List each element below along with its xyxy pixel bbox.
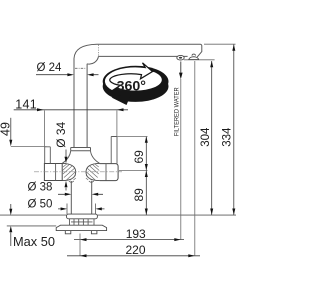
- 360 symbol: black disc: [103, 63, 169, 105]
- spout outlet underline (304 extension): [184, 59, 215, 61]
- left knob divider: [55, 164, 57, 181]
- 360 white band arrow with head at right: [104, 63, 152, 91]
- svg-text:Ø 34: Ø 34: [54, 121, 68, 147]
- faucet bend outer: [74, 44, 97, 58]
- base feet: [65, 231, 97, 234]
- svg-text:FILTERED WATER: FILTERED WATER: [174, 87, 181, 136]
- dim 193 line: [74, 239, 184, 241]
- svg-text:Max 50: Max 50: [13, 234, 55, 249]
- svg-text:69: 69: [132, 150, 146, 164]
- left ball dome (hatched): [62, 163, 75, 180]
- Max50 lower line: [7, 225, 56, 227]
- body top plate: [71, 148, 91, 151]
- 360 black arrowhead bottom-left: [112, 93, 132, 105]
- svg-text:220: 220: [126, 243, 146, 257]
- spout aerator ellipse: [177, 55, 184, 60]
- svg-text:89: 89: [132, 188, 146, 202]
- dim 89 line: [145, 170, 147, 215]
- spout top extension (334): [204, 43, 236, 45]
- dim Ø34 leader line + arrows: [65, 150, 67, 158]
- dim 69/89 mid extension: [119, 169, 148, 171]
- base bottom plate: [56, 225, 106, 230]
- right lever: [111, 137, 117, 164]
- base top plate: [67, 214, 98, 219]
- dim Ø24 line: [36, 74, 99, 76]
- 49 extension line: [11, 146, 47, 148]
- dim 220 line: [67, 255, 200, 257]
- 193/220 left extension: [79, 234, 81, 257]
- faucet riser pipe: [74, 59, 87, 148]
- svg-text:360°: 360°: [117, 79, 147, 95]
- Ø50 extension stubs: [67, 204, 96, 215]
- dim 69 line: [145, 137, 147, 171]
- dim 334 line: [233, 44, 235, 215]
- spout end extension (220 right): [194, 61, 196, 256]
- body right shoulder: [91, 151, 100, 164]
- dim Ø50 line: [58, 208, 105, 210]
- svg-text:Ø 24: Ø 24: [37, 62, 63, 74]
- spout horizontal tube: [97, 44, 202, 57]
- lower body column (Ø38): [71, 181, 91, 214]
- bend tangent dotted line: [98, 45, 100, 56]
- svg-text:Ø 38: Ø 38: [28, 181, 53, 193]
- filtered outlet extension (193 right): [180, 79, 182, 240]
- right handle knob: [100, 164, 119, 181]
- dome-column junction notches: [69, 181, 94, 182]
- flow arrow (filtered water outlet): [180, 62, 182, 73]
- counter top line: [0, 214, 236, 216]
- 141 left extension line: [44, 111, 46, 147]
- threaded section ribs: [70, 219, 95, 225]
- 141 right extension line: [116, 111, 118, 137]
- body left shoulder: [62, 151, 70, 164]
- dim 304 line: [211, 61, 213, 215]
- dim 69 extension top: [118, 136, 148, 138]
- handles centerline (dash-dot): [34, 171, 122, 173]
- svg-text:334: 334: [222, 127, 234, 147]
- dim 141 line: [14, 109, 128, 111]
- dim 49 line: [10, 118, 12, 140]
- svg-text:304: 304: [200, 127, 212, 147]
- svg-text:193: 193: [126, 227, 146, 241]
- left handle knob: [44, 164, 62, 181]
- spout end dome detail: [189, 57, 199, 60]
- svg-text:Ø 50: Ø 50: [28, 198, 53, 210]
- right knob divider: [105, 164, 107, 181]
- faucet bend inner: [87, 56, 98, 64]
- left lever: [45, 147, 51, 164]
- dim Ø38 line: [58, 193, 103, 195]
- riser dash-dot tick: [75, 67, 86, 69]
- Max50 dim arrows: [10, 204, 12, 209]
- right ball dome (hatched): [86, 163, 100, 180]
